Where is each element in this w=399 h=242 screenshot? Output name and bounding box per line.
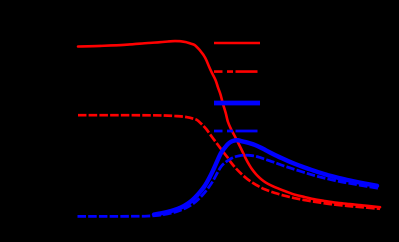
red solid curve — [78, 41, 380, 207]
blue solid curve — [154, 140, 377, 214]
legend sample: blue solid — [214, 101, 260, 106]
legend sample: red dashed — [214, 70, 258, 73]
legend sample: red solid — [214, 42, 260, 45]
red dashed curve — [78, 115, 380, 209]
legend sample: blue dashed — [214, 130, 258, 133]
blue dashed curve — [78, 155, 379, 216]
